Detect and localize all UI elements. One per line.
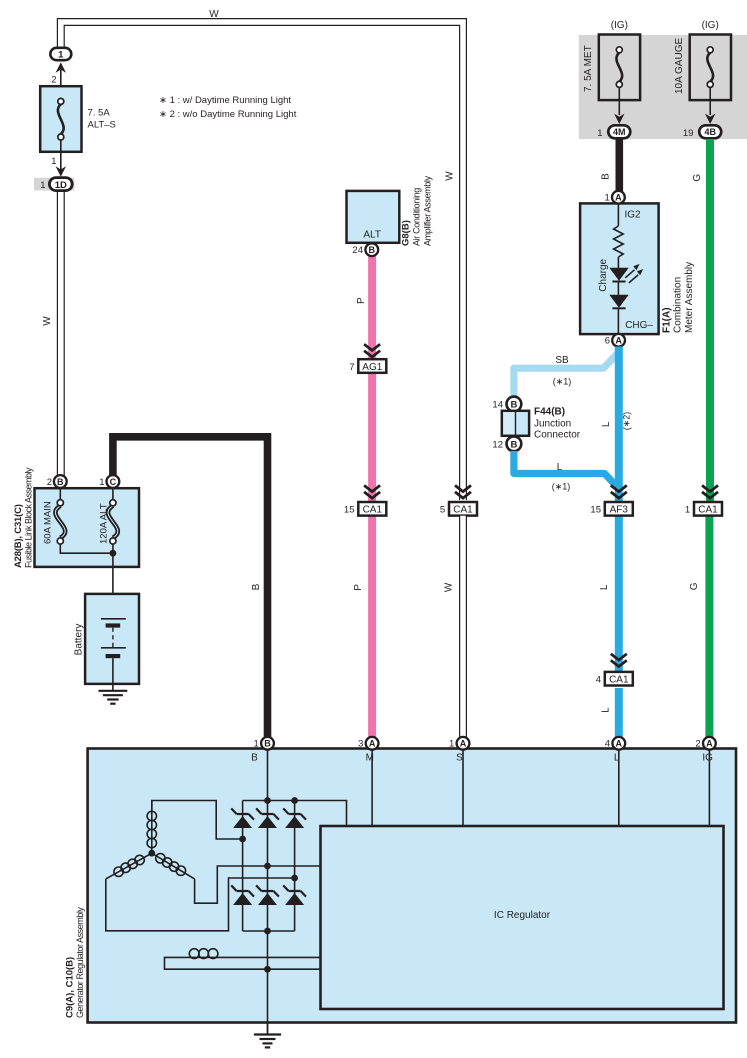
wire fuse GAUGE to arrow <box>709 87 711 115</box>
svg-text:B: B <box>369 245 376 255</box>
junction connector F44(B) box <box>502 411 529 436</box>
node L internal wire <box>618 749 620 826</box>
junction connector pin 14 B circle <box>507 397 522 412</box>
svg-text:1: 1 <box>254 738 259 749</box>
svg-text:W: W <box>445 171 456 181</box>
svg-text:B: B <box>57 477 64 487</box>
wire from arrow to fuse ALT-S <box>60 70 62 99</box>
arrow down into 4B <box>705 114 715 124</box>
wire SB branch (light blue) <box>514 352 619 397</box>
svg-text:1: 1 <box>449 738 454 749</box>
svg-text:L: L <box>599 584 610 590</box>
chevron arrow into 1 CA1 (green wire) <box>702 485 718 498</box>
junction dot field/ground <box>264 966 271 973</box>
fusible link block assembly A28(B), C31(C) box <box>35 488 140 567</box>
svg-text:A28(B), C31(C): A28(B), C31(C) <box>13 504 24 568</box>
field coil (rotor) <box>189 949 218 959</box>
pin 1 C circle <box>107 475 120 488</box>
svg-text:CHG–: CHG– <box>625 320 653 331</box>
LED arrows <box>625 264 643 283</box>
svg-text:Amplifier Assembly: Amplifier Assembly <box>423 175 433 246</box>
fuse 10A GAUGE <box>690 35 731 101</box>
svg-text:Charge: Charge <box>598 258 609 291</box>
svg-text:CA1: CA1 <box>363 505 383 516</box>
field coil circuit top wire <box>216 956 321 958</box>
svg-text:B: B <box>251 753 258 764</box>
wire col2 to ground <box>267 931 269 1022</box>
zener diode D3 (top col3) <box>283 808 306 828</box>
svg-text:1: 1 <box>40 180 45 191</box>
svg-text:120A ALT: 120A ALT <box>99 503 110 544</box>
node B internal wire <box>267 749 269 801</box>
wire L branch (junction connector to AF3) <box>514 451 619 489</box>
wire B thick (fusible link C to generator pin B) <box>113 437 268 738</box>
wire diode bottom bus <box>243 930 295 932</box>
connector 4M <box>608 125 630 138</box>
svg-text:CA1: CA1 <box>453 505 473 516</box>
junction dot phase2 col2 <box>264 863 271 870</box>
svg-text:S: S <box>456 753 463 764</box>
svg-text:3: 3 <box>358 738 363 749</box>
svg-text:1: 1 <box>51 156 56 167</box>
connector oval 1 (to ALT-S fuse, top) <box>50 48 71 61</box>
chevron arrow into 15 AF3 <box>611 485 627 498</box>
ground (generator) stem <box>267 1023 269 1035</box>
ground (battery) <box>99 691 128 704</box>
node M internal wire <box>371 749 373 826</box>
svg-text:W: W <box>42 316 53 326</box>
svg-text:CA1: CA1 <box>698 505 718 516</box>
zener diode D1 (top col1) <box>231 808 254 828</box>
battery cells <box>101 619 126 691</box>
chevron arrow into 15 CA1 (pink) <box>364 485 380 498</box>
stator phase 2 coil (right) <box>152 853 195 879</box>
IC regulator box <box>321 826 724 1009</box>
svg-text:A: A <box>616 739 623 749</box>
connector 15 AF3 box <box>605 502 633 516</box>
arrow down into connector 1D <box>56 166 66 176</box>
wire diode column 3 <box>294 801 296 932</box>
svg-text:2: 2 <box>51 74 56 85</box>
junction dot fusible link output <box>110 550 117 557</box>
wire from fuse ALT-S to connector 1D <box>60 140 62 170</box>
svg-text:C9(A), C10(B): C9(A), C10(B) <box>65 957 76 1018</box>
svg-text:CA1: CA1 <box>609 675 629 686</box>
svg-text:(∗2): (∗2) <box>622 412 632 431</box>
svg-text:A: A <box>706 739 713 749</box>
wire W segment 5CA1 to generator S <box>459 516 467 738</box>
stator phase 3 coil (left) <box>106 853 152 879</box>
svg-text:Fusible Link Block Assembly: Fusible Link Block Assembly <box>24 467 34 568</box>
wire fusible link to battery <box>112 553 114 619</box>
svg-text:ALT: ALT <box>363 230 381 241</box>
svg-text:6: 6 <box>605 335 610 346</box>
node S internal wire <box>462 749 464 826</box>
svg-text:AF3: AF3 <box>610 505 629 516</box>
svg-text:1: 1 <box>99 477 104 488</box>
svg-text:2: 2 <box>47 477 52 488</box>
svg-text:10A GAUGE: 10A GAUGE <box>674 38 685 94</box>
svg-text:4B: 4B <box>704 127 716 137</box>
fuse block grey band (instrument panel) <box>579 35 747 139</box>
pin 4 A circle (generator L) <box>612 737 625 750</box>
stator star point <box>148 850 155 857</box>
diode (meter) <box>609 295 628 334</box>
wire B+ top bus <box>243 801 347 827</box>
junction dot phase1 col1 <box>239 836 246 843</box>
wire L blue main (meter 6A to AF3 to CA1 to generator L) <box>615 347 623 739</box>
connector 5 CA1 box (white wire) <box>449 502 477 516</box>
svg-text:IG: IG <box>702 753 713 764</box>
junction connector pin 12 B circle <box>507 436 522 451</box>
wire B black (4M to combination meter) <box>615 139 623 198</box>
svg-text:SB: SB <box>555 355 569 366</box>
svg-text:1D: 1D <box>55 180 67 191</box>
pin 3 A circle (generator M) <box>366 737 379 750</box>
svg-text:(∗1): (∗1) <box>553 377 572 387</box>
svg-text:Battery: Battery <box>74 624 85 656</box>
zener diode D2 (top col2) <box>256 808 279 828</box>
svg-text:(IG): (IG) <box>611 20 628 31</box>
svg-text:P: P <box>356 297 367 304</box>
svg-text:1: 1 <box>597 128 602 139</box>
svg-text:7. 5A: 7. 5A <box>88 108 111 119</box>
node IG internal wire <box>708 749 710 826</box>
svg-text:B: B <box>510 439 517 450</box>
connector 1 CA1 box (green wire) <box>694 502 722 516</box>
LED charge indicator <box>609 268 628 295</box>
svg-text:A: A <box>615 193 622 203</box>
svg-text:7. 5A MET: 7. 5A MET <box>583 45 594 92</box>
stator phase 1 wire (top coil to col1) <box>152 801 243 840</box>
resistor (charge lamp) <box>614 204 624 269</box>
chevron arrow into 4 CA1 <box>611 654 627 667</box>
chevron arrow into AG1 <box>364 344 380 357</box>
svg-text:Air Conditioning: Air Conditioning <box>412 188 422 246</box>
svg-text:G8(B): G8(B) <box>401 220 412 246</box>
svg-text:2: 2 <box>695 738 700 749</box>
svg-text:∗ 1 : w/ Daytime Running Light: ∗ 1 : w/ Daytime Running Light <box>159 95 291 106</box>
svg-text:L: L <box>557 462 563 473</box>
svg-text:4: 4 <box>605 738 610 749</box>
svg-text:4M: 4M <box>613 127 626 137</box>
svg-text:AG1: AG1 <box>362 362 382 373</box>
wire P pink (ALT to AG1 to CA1 to generator M) <box>368 254 376 738</box>
combination meter box F1(A) <box>580 203 659 334</box>
svg-text:(IG): (IG) <box>702 20 719 31</box>
svg-text:F44(B): F44(B) <box>534 406 565 417</box>
svg-text:19: 19 <box>683 128 694 139</box>
svg-text:ALT–S: ALT–S <box>88 120 116 131</box>
connector 4B <box>699 125 721 138</box>
battery box <box>85 594 139 684</box>
zener diode D5 (bottom col2) <box>256 885 279 905</box>
svg-text:IG2: IG2 <box>625 210 642 221</box>
svg-text:B: B <box>601 173 612 180</box>
pin 2 A circle (generator IG) <box>703 737 716 750</box>
meter pin 6 A circle <box>612 334 625 347</box>
svg-text:A: A <box>615 336 622 346</box>
svg-text:L: L <box>601 421 612 427</box>
svg-text:15: 15 <box>590 505 601 516</box>
svg-text:L: L <box>601 707 612 713</box>
meter pin 1 A circle <box>612 191 625 204</box>
fuse 7.5A ALT-S <box>40 86 81 152</box>
connector 4 CA1 box <box>605 672 633 686</box>
stator phase 3 wire (to col3) <box>106 878 295 931</box>
svg-text:24: 24 <box>352 245 363 256</box>
svg-text:Combination: Combination <box>673 277 684 333</box>
svg-text:B: B <box>264 739 271 749</box>
junction dot bus col3 <box>291 797 298 804</box>
svg-text:B: B <box>251 583 262 590</box>
pin 1 A circle (generator S) <box>457 737 470 750</box>
wire fuse MET to arrow <box>618 87 620 115</box>
connector 15 CA1 box (pink wire) <box>358 502 386 516</box>
junction dot bottom bus col2 <box>264 928 271 935</box>
svg-text:G: G <box>689 582 700 590</box>
svg-text:C: C <box>110 477 117 487</box>
svg-text:1: 1 <box>58 50 64 61</box>
svg-text:G: G <box>692 174 703 182</box>
wire W top loop (white wire, double line) <box>61 22 463 500</box>
svg-text:B: B <box>510 400 517 411</box>
svg-text:14: 14 <box>492 400 503 411</box>
ground (generator) <box>254 1035 281 1048</box>
wire W segment fuse to fusible link <box>57 190 65 476</box>
svg-text:W: W <box>209 9 219 20</box>
svg-text:15: 15 <box>344 505 355 516</box>
pin 2 B circle <box>54 475 67 488</box>
arrow down into 4M <box>614 114 624 124</box>
junction dot bus col2 <box>264 797 271 804</box>
svg-text:4: 4 <box>596 675 601 686</box>
svg-text:5: 5 <box>440 505 445 516</box>
svg-text:W: W <box>444 582 455 592</box>
svg-text:A: A <box>369 739 376 749</box>
svg-text:12: 12 <box>492 439 503 450</box>
fusible link 120A ALT <box>108 488 118 553</box>
connector 1D <box>49 178 72 191</box>
svg-text:IC Regulator: IC Regulator <box>494 910 551 921</box>
svg-text:Generator Regulator Assembly: Generator Regulator Assembly <box>75 907 85 1018</box>
wire G green (4B to CA1 to generator IG) <box>705 139 714 738</box>
field coil circuit left and bottom wire <box>165 957 321 969</box>
svg-text:Junction: Junction <box>534 419 571 430</box>
svg-text:7: 7 <box>349 362 354 373</box>
svg-text:Meter Assembly: Meter Assembly <box>684 262 695 333</box>
zener diode D6 (bottom col3) <box>283 885 306 905</box>
svg-text:∗ 2 : w/o Daytime Running Ligh: ∗ 2 : w/o Daytime Running Light <box>159 109 297 120</box>
connector 1D grey band <box>34 178 74 191</box>
svg-text:P: P <box>353 584 364 591</box>
ALT box (air conditioning amplifier) <box>347 191 400 243</box>
stator top coil <box>147 801 156 854</box>
pin 1 B circle (generator) <box>261 737 274 750</box>
chevron arrow into 5 CA1 (white wire) <box>455 485 471 498</box>
svg-text:1: 1 <box>685 505 690 516</box>
connector AG1 box <box>358 359 386 373</box>
svg-text:F1(A): F1(A) <box>662 307 673 333</box>
pin 24 B circle of ALT <box>365 243 378 256</box>
svg-text:(∗1): (∗1) <box>552 482 571 492</box>
svg-text:A: A <box>460 739 467 749</box>
fusible link 60A MAIN <box>55 488 113 553</box>
junction dot phase3 col3 <box>291 875 298 882</box>
stator phase 2 wire (to col2 and IC regulator) <box>195 866 321 903</box>
wire diode column 1 <box>242 801 244 932</box>
arrow up into connector 1 <box>56 62 66 72</box>
fuse 7.5A MET <box>599 35 640 101</box>
generator regulator assembly box C9(A), C10(B) <box>88 749 736 1023</box>
svg-text:Connector: Connector <box>534 430 581 441</box>
svg-text:1: 1 <box>605 192 610 203</box>
wire diode column 2 <box>267 801 269 932</box>
svg-text:60A MAIN: 60A MAIN <box>43 501 54 544</box>
zener diode D4 (bottom col1) <box>231 885 254 905</box>
